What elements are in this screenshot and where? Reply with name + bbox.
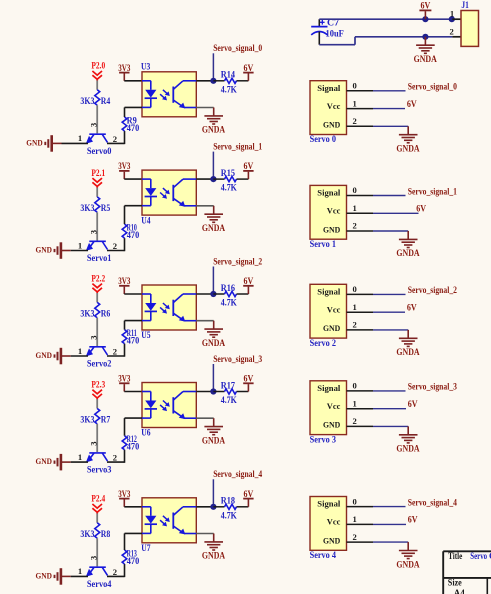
svg-text:GND: GND	[36, 245, 52, 255]
svg-text:A4: A4	[454, 588, 465, 594]
svg-text:Servo_signal_1: Servo_signal_1	[408, 186, 458, 196]
svg-text:6V: 6V	[408, 399, 418, 409]
svg-text:3V3: 3V3	[118, 161, 131, 171]
svg-text:470: 470	[127, 230, 140, 240]
svg-text:470: 470	[127, 556, 140, 566]
svg-text:R5: R5	[101, 203, 111, 213]
svg-text:Signal: Signal	[317, 189, 341, 198]
svg-text:1: 1	[78, 566, 82, 576]
svg-text:GND: GND	[323, 225, 341, 234]
svg-text:GNDA: GNDA	[396, 559, 420, 569]
svg-text:R6: R6	[101, 309, 111, 319]
svg-text:R7: R7	[101, 415, 111, 425]
svg-text:6V: 6V	[407, 99, 417, 109]
svg-text:P2.1: P2.1	[91, 168, 105, 178]
svg-text:3K3: 3K3	[80, 415, 94, 425]
svg-text:1: 1	[78, 346, 82, 356]
svg-text:R15: R15	[221, 168, 236, 178]
svg-text:Servo 3: Servo 3	[310, 434, 337, 444]
svg-text:GNDA: GNDA	[396, 347, 420, 357]
svg-text:3K3: 3K3	[80, 203, 94, 213]
svg-text:P2.3: P2.3	[91, 379, 105, 389]
svg-text:3V3: 3V3	[118, 63, 131, 73]
svg-text:Size: Size	[448, 578, 462, 588]
svg-text:Servo: Servo	[470, 551, 487, 561]
svg-text:R17: R17	[221, 380, 236, 390]
svg-text:3: 3	[88, 442, 98, 446]
svg-text:GNDA: GNDA	[202, 435, 226, 445]
svg-text:Signal: Signal	[317, 384, 341, 393]
svg-text:3K3: 3K3	[80, 309, 94, 319]
svg-text:0: 0	[353, 381, 357, 391]
svg-text:6V: 6V	[421, 1, 431, 11]
svg-text:2: 2	[353, 116, 357, 126]
svg-text:R4: R4	[101, 96, 111, 106]
svg-text:Signal: Signal	[317, 288, 341, 297]
svg-text:P2.2: P2.2	[91, 273, 105, 283]
svg-text:2: 2	[113, 567, 117, 577]
svg-text:GNDA: GNDA	[202, 338, 226, 348]
svg-text:4.7K: 4.7K	[221, 183, 237, 193]
svg-text:6V: 6V	[244, 276, 254, 286]
svg-text:Servo_signal_0: Servo_signal_0	[213, 43, 262, 53]
svg-text:Servo_signal_3: Servo_signal_3	[213, 354, 262, 364]
svg-text:3: 3	[88, 123, 98, 127]
svg-text:Servo_signal_2: Servo_signal_2	[213, 256, 262, 266]
svg-text:Servo 0: Servo 0	[310, 134, 337, 144]
svg-text:470: 470	[127, 123, 140, 133]
svg-text:U6: U6	[141, 428, 151, 438]
svg-text:Vcc: Vcc	[327, 306, 341, 315]
svg-text:Servo4: Servo4	[87, 579, 112, 589]
svg-text:GND: GND	[323, 536, 341, 545]
svg-text:2: 2	[113, 453, 117, 463]
svg-text:GNDA: GNDA	[396, 444, 420, 454]
svg-text:P2.0: P2.0	[91, 61, 105, 71]
svg-text:R18: R18	[221, 496, 236, 506]
svg-text:6V: 6V	[408, 515, 418, 525]
svg-text:0: 0	[353, 284, 357, 294]
svg-text:Servo_signal_2: Servo_signal_2	[408, 285, 458, 295]
svg-text:J1: J1	[461, 0, 469, 10]
svg-text:R16: R16	[221, 283, 236, 293]
svg-text:Vcc: Vcc	[327, 102, 341, 111]
svg-text:GND: GND	[36, 350, 52, 360]
svg-text:1: 1	[450, 9, 454, 19]
svg-text:2: 2	[353, 320, 357, 330]
svg-text:10uF: 10uF	[326, 28, 345, 38]
svg-text:Signal: Signal	[317, 500, 341, 509]
svg-text:GND: GND	[26, 137, 42, 147]
svg-text:Servo1: Servo1	[87, 253, 112, 263]
svg-text:4.7K: 4.7K	[221, 298, 237, 308]
svg-text:GND: GND	[36, 456, 52, 466]
svg-text:Servo 2: Servo 2	[310, 338, 337, 348]
svg-text:3V3: 3V3	[118, 489, 131, 499]
svg-text:3: 3	[88, 335, 98, 339]
svg-text:GND: GND	[323, 121, 341, 130]
svg-text:6V: 6V	[244, 374, 254, 384]
svg-text:1: 1	[353, 398, 357, 408]
svg-text:U3: U3	[141, 62, 151, 72]
svg-text:2: 2	[353, 221, 357, 231]
svg-text:R8: R8	[101, 529, 111, 539]
svg-text:6V: 6V	[416, 204, 426, 214]
svg-text:0: 0	[353, 185, 357, 195]
svg-text:GNDA: GNDA	[202, 125, 226, 135]
svg-text:U7: U7	[141, 543, 151, 553]
svg-text:GNDA: GNDA	[396, 248, 420, 258]
svg-text:GND: GND	[323, 421, 341, 430]
svg-text:Servo_signal_4: Servo_signal_4	[408, 497, 458, 507]
svg-text:Servo0: Servo0	[87, 146, 112, 156]
svg-text:1: 1	[353, 98, 357, 108]
svg-text:Signal: Signal	[317, 84, 341, 93]
svg-text:3V3: 3V3	[118, 374, 131, 384]
svg-text:2: 2	[113, 241, 117, 251]
svg-text:1: 1	[78, 452, 82, 462]
svg-text:1: 1	[78, 240, 82, 250]
svg-text:Vcc: Vcc	[327, 518, 341, 527]
svg-text:4.7K: 4.7K	[221, 84, 237, 94]
svg-text:3: 3	[88, 230, 98, 234]
svg-text:2: 2	[353, 416, 357, 426]
svg-text:1: 1	[353, 302, 357, 312]
svg-text:R14: R14	[221, 70, 236, 80]
svg-text:1: 1	[353, 514, 357, 524]
svg-text:U4: U4	[141, 215, 151, 225]
svg-text:Title: Title	[448, 551, 462, 561]
svg-text:Servo_signal_4: Servo_signal_4	[213, 469, 262, 479]
svg-text:GND: GND	[323, 324, 341, 333]
svg-text:Vcc: Vcc	[327, 207, 341, 216]
svg-text:1: 1	[78, 133, 82, 143]
svg-text:GNDA: GNDA	[396, 144, 420, 154]
svg-text:6V: 6V	[244, 489, 254, 499]
svg-text:Servo2: Servo2	[87, 358, 112, 368]
svg-text:P2.4: P2.4	[91, 494, 105, 504]
svg-text:Servo_signal_1: Servo_signal_1	[213, 142, 262, 152]
svg-text:1: 1	[353, 203, 357, 213]
svg-text:Servo 1: Servo 1	[310, 239, 337, 249]
svg-text:GND: GND	[36, 570, 52, 580]
svg-text:2: 2	[113, 134, 117, 144]
svg-text:Vcc: Vcc	[327, 402, 341, 411]
svg-text:3V3: 3V3	[118, 276, 131, 286]
svg-text:6V: 6V	[407, 302, 417, 312]
svg-text:GNDA: GNDA	[202, 223, 226, 233]
svg-text:U5: U5	[141, 330, 151, 340]
svg-text:GNDA: GNDA	[414, 54, 438, 64]
svg-text:6V: 6V	[244, 161, 254, 171]
svg-text:Servo_signal_0: Servo_signal_0	[408, 82, 458, 92]
svg-text:3K3: 3K3	[80, 96, 94, 106]
svg-text:4.7K: 4.7K	[221, 395, 237, 405]
svg-text:0: 0	[353, 496, 357, 506]
svg-text:2: 2	[113, 347, 117, 357]
svg-text:470: 470	[127, 442, 140, 452]
svg-text:Servo 4: Servo 4	[310, 550, 337, 560]
svg-text:470: 470	[127, 335, 140, 345]
svg-text:3K3: 3K3	[80, 529, 94, 539]
svg-text:0: 0	[353, 81, 357, 91]
svg-text:2: 2	[450, 26, 454, 36]
svg-text:6V: 6V	[244, 63, 254, 73]
svg-text:2: 2	[353, 532, 357, 542]
svg-text:Servo_signal_3: Servo_signal_3	[408, 382, 458, 392]
svg-text:3: 3	[88, 556, 98, 560]
svg-text:Servo3: Servo3	[87, 465, 112, 475]
svg-text:4.7K: 4.7K	[221, 510, 237, 520]
svg-text:GNDA: GNDA	[202, 551, 226, 561]
